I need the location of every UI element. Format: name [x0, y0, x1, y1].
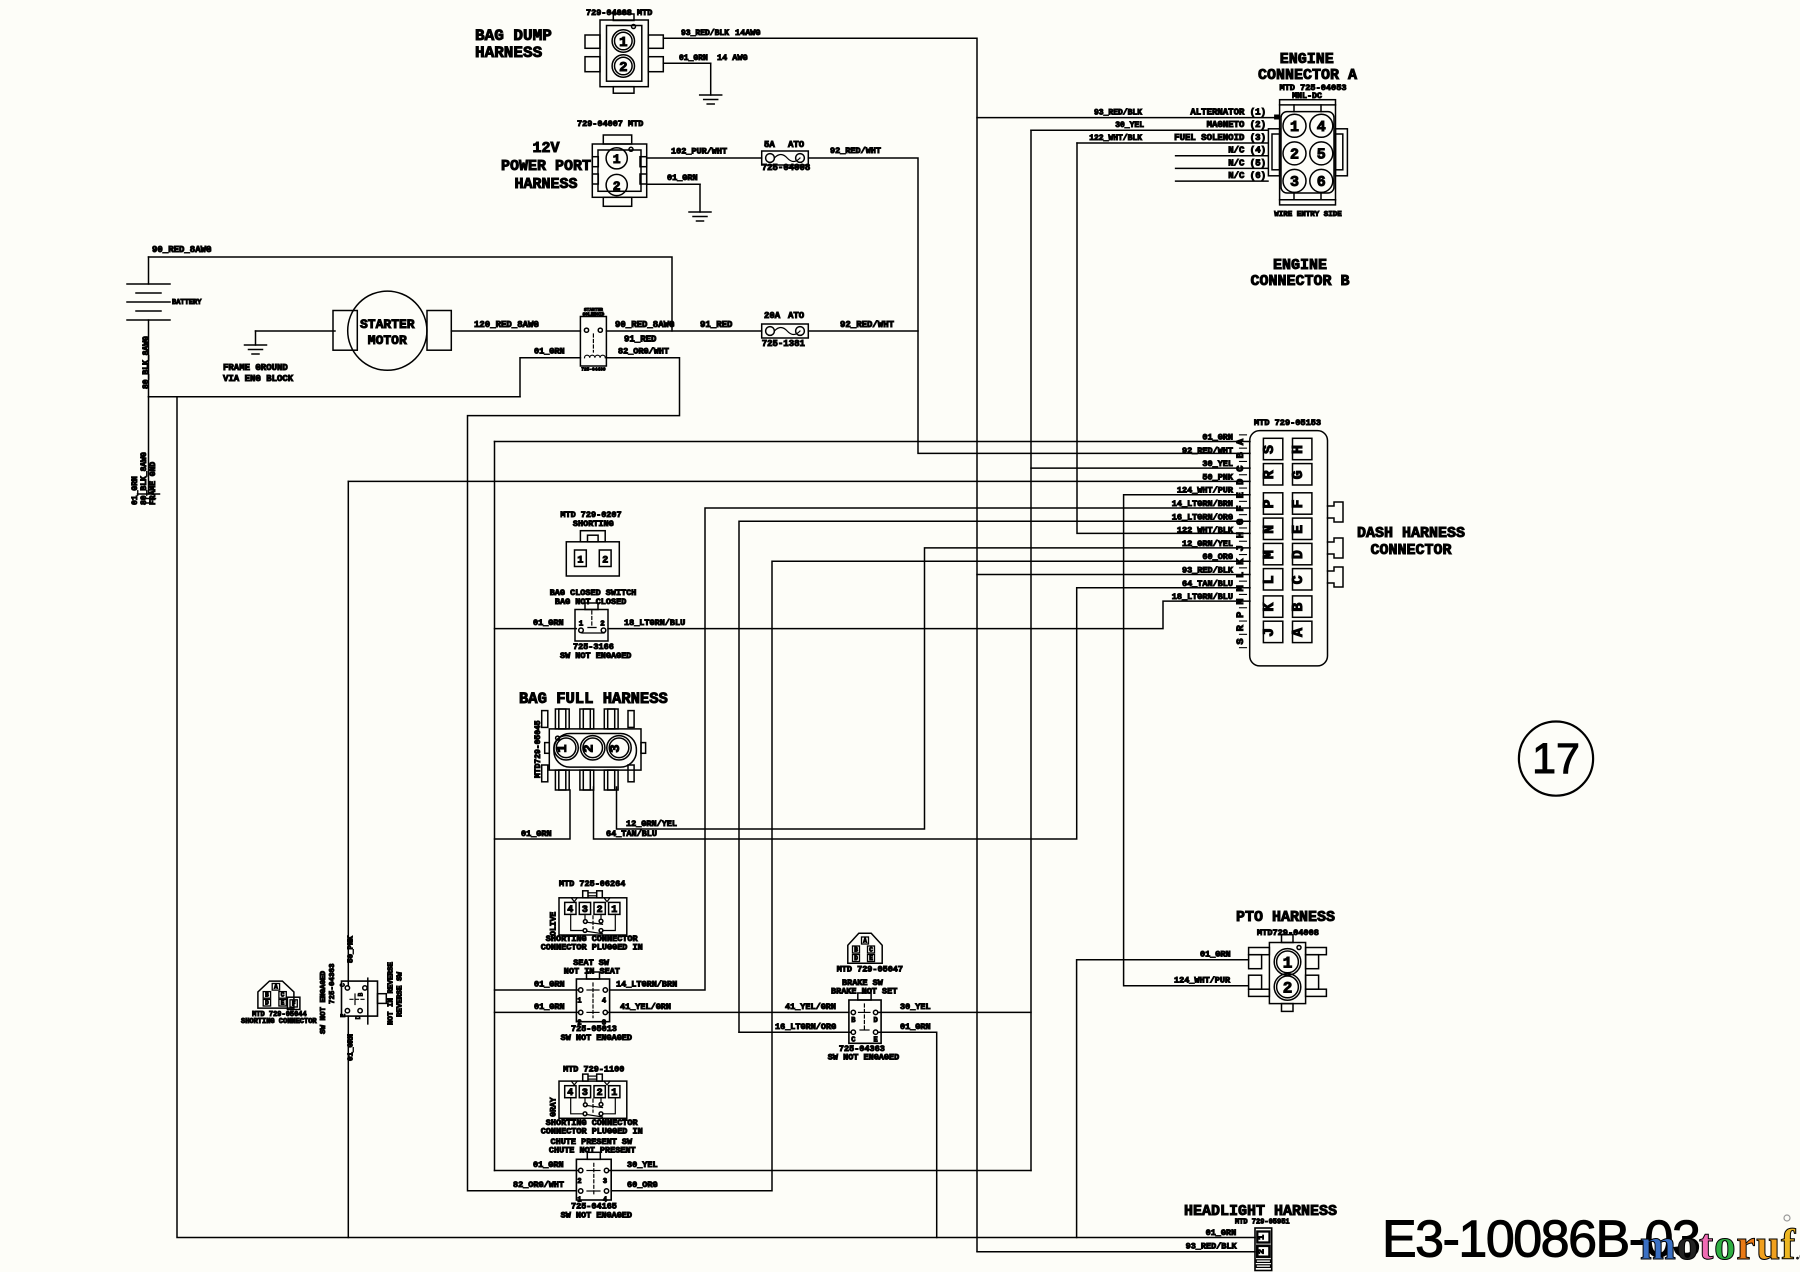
svg-text:R: R	[1235, 624, 1247, 631]
svg-text:12V: 12V	[532, 140, 559, 157]
wire dash L 93_RED/BLK branch	[977, 574, 1250, 576]
svg-text:6: 6	[1317, 174, 1326, 191]
svg-text:S: S	[1261, 445, 1278, 454]
svg-text:REVERSE SW: REVERSE SW	[397, 971, 405, 1017]
svg-text:01_GRN: 01_GRN	[348, 1034, 356, 1061]
svg-text:A: A	[1290, 628, 1307, 637]
svg-text:92_RED/WHT: 92_RED/WHT	[1182, 446, 1233, 456]
svg-text:1: 1	[613, 152, 621, 167]
svg-text:OLIVE: OLIVE	[550, 912, 559, 936]
svg-text:R: R	[1261, 470, 1278, 479]
svg-text:124_WHT/PUR: 124_WHT/PUR	[1174, 976, 1231, 986]
svg-text:90_RED_8AWG: 90_RED_8AWG	[152, 245, 211, 255]
svg-text:MTD 725-06264: MTD 725-06264	[559, 879, 625, 889]
wire 120_RED_8AWG motor to solenoid	[451, 330, 580, 332]
svg-text:B: B	[1290, 603, 1307, 612]
wire engine pin5 N/C	[1176, 167, 1268, 169]
svg-text:HARNESS: HARNESS	[514, 176, 577, 193]
svg-text:C: C	[340, 983, 347, 987]
svg-text:14_LTGRN/BRN: 14_LTGRN/BRN	[616, 980, 677, 990]
svg-text:725-04008: 725-04008	[762, 163, 811, 173]
svg-text:H: H	[1290, 445, 1307, 454]
svg-text:N/C (6): N/C (6)	[1228, 171, 1266, 181]
svg-text:FRAME GND: FRAME GND	[149, 462, 158, 505]
svg-text:F: F	[1290, 499, 1307, 508]
wire 01_GRN reverse switch to ground bus	[347, 1016, 349, 1237]
svg-text:D: D	[873, 1017, 877, 1025]
svg-text:SHORTING: SHORTING	[573, 519, 614, 529]
bag full harness connector J4	[549, 729, 641, 770]
wire dash C 30_YEL branch	[1031, 467, 1250, 469]
svg-text:MTD729-04008: MTD729-04008	[1257, 928, 1319, 938]
reverse switch S4	[342, 981, 378, 1016]
svg-text:5A: 5A	[764, 140, 775, 150]
wire 01_GRN solenoid ground branch	[520, 358, 580, 397]
svg-text:122_WHT/BLK: 122_WHT/BLK	[1089, 134, 1142, 143]
wire 41_YEL/GRN seat to brake	[608, 1011, 849, 1013]
svg-text:729-04007 MTD: 729-04007 MTD	[577, 119, 643, 129]
svg-text:01_GRN: 01_GRN	[1206, 1228, 1237, 1238]
svg-text:01_GRN: 01_GRN	[533, 618, 564, 628]
svg-text:2: 2	[600, 621, 605, 629]
svg-text:3: 3	[608, 744, 624, 752]
wire 90_RED_8AWG solenoid to fuse	[606, 330, 761, 332]
svg-text:2: 2	[577, 1178, 581, 1186]
svg-text:2: 2	[619, 60, 627, 76]
svg-text:2: 2	[597, 1088, 603, 1099]
bag closed switch S1	[575, 610, 608, 642]
shorting connector olive	[559, 898, 627, 935]
svg-text:D: D	[854, 955, 858, 962]
svg-text:J: J	[1261, 628, 1278, 637]
svg-text:F: F	[292, 1001, 296, 1008]
svg-text:122_WHT/BLK: 122_WHT/BLK	[1177, 526, 1234, 536]
svg-text:MAGNETO (2): MAGNETO (2)	[1207, 120, 1266, 130]
svg-text:1: 1	[611, 905, 617, 916]
svg-text:2: 2	[602, 556, 608, 567]
svg-text:01_GRN: 01_GRN	[533, 1160, 564, 1170]
svg-text:MTD 729-05153: MTD 729-05153	[1254, 418, 1321, 428]
svg-text:16_LTGRN/ORG: 16_LTGRN/ORG	[775, 1022, 836, 1032]
svg-text:14AWG: 14AWG	[735, 28, 761, 38]
svg-text:1: 1	[555, 744, 571, 752]
svg-text:A: A	[863, 938, 867, 945]
wire 30_YEL chute to bus	[609, 1170, 1031, 1172]
svg-text:D: D	[1290, 550, 1307, 559]
wire dash G 16_LTGRN/ORG	[739, 521, 1250, 1032]
svg-text:2: 2	[1256, 1249, 1266, 1254]
svg-text:CONNECTOR PLUGGED IN: CONNECTOR PLUGGED IN	[541, 1127, 643, 1137]
svg-text:MTD 729-05047: MTD 729-05047	[837, 965, 903, 975]
svg-text:1: 1	[1283, 955, 1293, 973]
svg-text:3: 3	[603, 1178, 607, 1186]
svg-text:C: C	[869, 947, 873, 954]
svg-text:1: 1	[577, 998, 581, 1006]
svg-text:E: E	[281, 1000, 285, 1007]
wire 50_PNK vertical to reverse switch	[347, 481, 349, 981]
ground bag dump	[710, 63, 712, 95]
svg-text:4: 4	[602, 998, 606, 1006]
svg-text:SW NOT ENGAGED: SW NOT ENGAGED	[561, 1033, 632, 1043]
wire engine pin4 N/C	[1176, 155, 1268, 157]
seat switch S2	[576, 979, 609, 1022]
svg-text:1: 1	[619, 35, 627, 51]
dash harness connector J3	[1250, 431, 1328, 666]
svg-text:91_RED: 91_RED	[700, 320, 733, 330]
wire 90_RED_8AWG battery to starter solenoid	[149, 257, 673, 331]
svg-text:ALTERNATOR (1): ALTERNATOR (1)	[1190, 108, 1266, 118]
battery BAT1	[148, 257, 150, 284]
wire 50_PNK into reverse switch	[347, 981, 349, 986]
svg-text:GRAY: GRAY	[550, 1097, 559, 1116]
svg-text:80_BLK_8AWG: 80_BLK_8AWG	[142, 336, 151, 389]
wire 102_PUR/WHT to fuse	[647, 157, 762, 159]
starter solenoid K1	[580, 317, 606, 367]
wire engine pin6 N/C	[1176, 180, 1268, 182]
svg-text:A: A	[274, 984, 278, 991]
svg-text:01_GRN: 01_GRN	[534, 1002, 565, 1012]
svg-text:BAG NOT CLOSED: BAG NOT CLOSED	[555, 597, 626, 607]
wire engine pin1 alternator	[977, 117, 1276, 119]
svg-text:BAG FULL HARNESS: BAG FULL HARNESS	[519, 690, 668, 708]
svg-text:90_RED_8AWG: 90_RED_8AWG	[615, 320, 674, 330]
svg-text:CHUTE NOT PRESENT: CHUTE NOT PRESENT	[549, 1146, 636, 1156]
12V power port connector J2	[592, 144, 646, 197]
wire 30_YEL vertical bus	[1030, 130, 1032, 1170]
svg-text:93_RED/BLK: 93_RED/BLK	[681, 29, 729, 38]
svg-text:2: 2	[1290, 147, 1299, 164]
svg-text:14 AWG: 14 AWG	[717, 53, 748, 63]
chute present switch S3	[576, 1159, 611, 1200]
svg-text:FUEL SOLENOID (3): FUEL SOLENOID (3)	[1174, 133, 1266, 143]
svg-text:M: M	[1261, 550, 1278, 559]
svg-text:2: 2	[1283, 980, 1293, 998]
wire 92_RED/WHT 20A fuse to vertical	[808, 330, 918, 332]
svg-text:C: C	[281, 992, 285, 999]
svg-text:WIRE ENTRY SIDE: WIRE ENTRY SIDE	[1274, 211, 1342, 219]
starter motor M1	[333, 311, 357, 351]
svg-text:S: S	[1235, 638, 1247, 644]
svg-text:01_GRN: 01_GRN	[131, 476, 140, 505]
svg-text:HARNESS: HARNESS	[475, 44, 543, 62]
svg-text:93_RED/BLK: 93_RED/BLK	[1094, 109, 1142, 118]
wire 01_GRN seat top	[495, 989, 579, 991]
wire dash D 50_PNK	[348, 480, 1250, 482]
svg-text:B: B	[1235, 451, 1247, 458]
wire dash K 60_ORG	[611, 561, 1250, 1190]
wire 01_GRN to bag closed switch	[495, 628, 577, 630]
wire 80_BLK_8AWG battery negative bus	[149, 396, 521, 398]
svg-text:BATTERY: BATTERY	[172, 299, 202, 307]
wire dash J 12_GRN/YEL	[617, 548, 1251, 829]
ground frame ground via eng block	[255, 331, 257, 345]
svg-text:01_GRN: 01_GRN	[667, 173, 698, 183]
svg-text:N/C (4): N/C (4)	[1228, 146, 1266, 156]
svg-text:HEADLIGHT HARNESS: HEADLIGHT HARNESS	[1184, 1203, 1337, 1220]
svg-text:41_YEL/GRN: 41_YEL/GRN	[785, 1002, 836, 1012]
wire ground loop vertical left	[177, 397, 1255, 1238]
wire dash M 64_TAN/BLU	[594, 588, 1251, 839]
svg-text:VIA ENG BLOCK: VIA ENG BLOCK	[223, 374, 294, 384]
svg-text:01_GRN: 01_GRN	[534, 347, 565, 357]
svg-text:N/C (5): N/C (5)	[1228, 158, 1266, 168]
shorting connector 729-0207	[566, 542, 619, 576]
brake pentagon connector 729-05047	[848, 933, 882, 963]
wire 01_GRN seat bottom	[495, 1011, 579, 1013]
wire 01_GRN 12v to ground	[647, 183, 700, 185]
svg-text:P: P	[1261, 499, 1278, 508]
wire 01_GRN chute	[495, 1170, 579, 1172]
svg-text:K: K	[1261, 603, 1278, 612]
svg-text:120_RED_8AWG: 120_RED_8AWG	[474, 320, 539, 330]
svg-text:1: 1	[611, 1088, 617, 1099]
bag dump connector J1	[600, 20, 648, 87]
svg-text:SHORTING CONNECTOR: SHORTING CONNECTOR	[241, 1018, 317, 1026]
fuse F2 20A ATO	[762, 324, 809, 338]
svg-text:01_GRN: 01_GRN	[900, 1022, 931, 1032]
wire dash F 14_LTGRN/BRN	[610, 508, 1250, 990]
wire engine pin2 magneto 30_YEL	[1031, 129, 1268, 131]
wire 16_LTGRN/ORG brake	[739, 1031, 851, 1033]
wire 82_ORG/WHT solenoid to chute switch	[468, 358, 680, 1191]
ground frame GND below battery	[148, 397, 150, 494]
svg-text:64_TAN/BLU: 64_TAN/BLU	[606, 829, 657, 839]
svg-text:1: 1	[1256, 1235, 1266, 1240]
svg-text:E: E	[869, 955, 873, 962]
wire 122_WHT/BLK vertical to dash H	[1077, 143, 1250, 533]
svg-text:BRAKE NOT SET: BRAKE NOT SET	[831, 987, 897, 997]
headlight connector J6	[1255, 1228, 1272, 1271]
svg-text:FRAME GROUND: FRAME GROUND	[223, 363, 288, 373]
wire 01_GRN PTO	[1077, 960, 1249, 1238]
svg-text:NOT IN REVERSE: NOT IN REVERSE	[388, 961, 396, 1025]
engine connector A body	[1280, 100, 1336, 205]
svg-text:C: C	[1290, 575, 1307, 584]
svg-text:1: 1	[1290, 119, 1299, 136]
svg-text:82_ORG/WHT: 82_ORG/WHT	[513, 1180, 564, 1190]
svg-text:CONNECTOR A: CONNECTOR A	[1258, 67, 1357, 84]
wire 30_YEL brake to bus	[878, 1011, 1031, 1013]
svg-text:BAG DUMP: BAG DUMP	[475, 27, 552, 45]
svg-text:725-04439: 725-04439	[581, 367, 606, 373]
svg-text:102_PUR/WHT: 102_PUR/WHT	[671, 147, 727, 157]
svg-text:92_RED/WHT: 92_RED/WHT	[830, 146, 881, 156]
svg-text:5: 5	[1317, 147, 1326, 164]
wire 92_RED/WHT 5A fuse to dash B	[808, 158, 1250, 453]
wire 93_RED/BLK bag dump to engine/dash	[663, 38, 977, 1251]
svg-text:D: D	[355, 1015, 362, 1019]
ground 12V port	[699, 184, 701, 212]
svg-text:80_BLK_8AWG: 80_BLK_8AWG	[140, 452, 149, 505]
svg-text:N: N	[1261, 525, 1278, 534]
svg-text:E: E	[340, 1013, 347, 1017]
svg-text:B: B	[358, 992, 365, 996]
svg-text:2: 2	[597, 905, 603, 916]
svg-text:91_RED: 91_RED	[624, 335, 657, 345]
svg-text:01_GRN: 01_GRN	[1200, 950, 1231, 960]
wire dash A 01_GRN	[495, 441, 1251, 443]
svg-text:G: G	[1290, 470, 1307, 479]
svg-text:CONNECTOR PLUGGED IN: CONNECTOR PLUGGED IN	[541, 943, 643, 953]
svg-text:20A: 20A	[764, 311, 781, 321]
wire 01_GRN bag full pin1	[495, 790, 571, 839]
svg-text:DASH HARNESS: DASH HARNESS	[1357, 525, 1465, 542]
svg-text:L: L	[1261, 575, 1278, 584]
svg-text:725-04363: 725-04363	[329, 963, 337, 1004]
svg-text:2: 2	[582, 744, 598, 752]
PTO connector J5	[1269, 943, 1305, 1004]
svg-text:CONNECTOR: CONNECTOR	[1370, 542, 1451, 559]
svg-text:P: P	[1235, 612, 1247, 618]
svg-text:82_ORG/WHT: 82_ORG/WHT	[618, 347, 669, 357]
svg-text:30_YEL: 30_YEL	[627, 1160, 658, 1170]
svg-text:17: 17	[1532, 735, 1580, 783]
svg-text:1: 1	[577, 556, 583, 567]
svg-text:01_GRN: 01_GRN	[521, 829, 552, 839]
svg-text:ATO: ATO	[788, 311, 805, 321]
callout circle 17	[1519, 722, 1593, 796]
svg-text:12_GRN/YEL: 12_GRN/YEL	[626, 819, 677, 829]
svg-text:01_GRN: 01_GRN	[534, 980, 565, 990]
svg-text:STARTER: STARTER	[360, 317, 415, 332]
svg-text:729-04008 MTD: 729-04008 MTD	[586, 8, 652, 18]
svg-text:30_YEL: 30_YEL	[1115, 121, 1144, 130]
svg-text:SW NOT ENGAGED: SW NOT ENGAGED	[560, 651, 631, 661]
wire 93_RED/BLK to headlight	[977, 1251, 1255, 1253]
svg-text:93_RED/BLK: 93_RED/BLK	[1186, 1242, 1238, 1252]
wire ground to starter motor	[256, 330, 336, 332]
svg-text:B: B	[265, 992, 269, 999]
svg-text:H: H	[1235, 532, 1247, 538]
wire engine pin3 fuel solenoid 122_WHT/BLK	[1077, 142, 1268, 144]
svg-text:POWER PORT: POWER PORT	[501, 158, 591, 175]
svg-text:2: 2	[613, 179, 621, 194]
svg-text:60_ORG: 60_ORG	[627, 1180, 658, 1190]
wire 01_GRN vertical bus	[494, 442, 496, 1171]
svg-text:ENGINE: ENGINE	[1273, 257, 1327, 274]
shorting connector gray	[559, 1081, 627, 1118]
svg-text:50_PNK: 50_PNK	[348, 935, 356, 963]
svg-text:18_LTGRN/BLU: 18_LTGRN/BLU	[624, 618, 685, 628]
svg-text:PTO HARNESS: PTO HARNESS	[1236, 909, 1335, 926]
svg-text:SW NOT ENGAGED: SW NOT ENGAGED	[320, 970, 328, 1034]
svg-text:B: B	[854, 947, 858, 954]
brake switch S5	[849, 1000, 881, 1043]
svg-text:SOLENOID: SOLENOID	[583, 312, 605, 318]
svg-text:ENGINE: ENGINE	[1280, 51, 1334, 68]
svg-text:3: 3	[1290, 174, 1299, 191]
wire dash E 124_WHT/PUR	[1124, 495, 1250, 986]
wire 01_GRN brake to bottom bus	[878, 1032, 937, 1237]
svg-text:motoruf.de: motoruf.de	[1640, 1222, 1800, 1269]
svg-text:30_YEL: 30_YEL	[900, 1002, 931, 1012]
svg-text:CONNECTOR B: CONNECTOR B	[1250, 273, 1349, 290]
wire dash N 18_LTGRN/BLU	[608, 601, 1250, 629]
svg-text:D: D	[265, 1000, 269, 1007]
shorting connector 729-05044 pentagon	[258, 981, 294, 1008]
wire 01_GRN bag dump to ground	[663, 62, 710, 64]
svg-text:E: E	[1290, 525, 1307, 534]
svg-text:01_GRN: 01_GRN	[679, 54, 708, 63]
svg-text:725-1381: 725-1381	[762, 339, 806, 349]
svg-text:ATO: ATO	[788, 140, 805, 150]
svg-text:41_YEL/GRN: 41_YEL/GRN	[620, 1002, 671, 1012]
svg-text:92_RED/WHT: 92_RED/WHT	[840, 320, 895, 330]
svg-text:SW NOT ENGAGED: SW NOT ENGAGED	[828, 1053, 899, 1063]
svg-text:SW NOT ENGAGED: SW NOT ENGAGED	[561, 1211, 632, 1221]
fuse F1 5A ATO	[762, 151, 809, 165]
svg-text:MTD 729-1100: MTD 729-1100	[563, 1065, 624, 1075]
svg-text:4: 4	[1317, 119, 1326, 136]
svg-text:MTD 729-05951: MTD 729-05951	[1235, 1219, 1290, 1227]
svg-text:MOTOR: MOTOR	[368, 333, 407, 348]
